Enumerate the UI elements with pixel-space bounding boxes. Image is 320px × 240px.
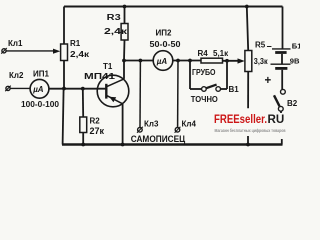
meter ИП2 — [153, 51, 173, 71]
svg-text:+: + — [265, 75, 272, 87]
svg-text:R5: R5 — [255, 41, 266, 50]
svg-text:Кл1: Кл1 — [8, 39, 23, 48]
svg-text:Кл4: Кл4 — [182, 119, 197, 128]
svg-text:ТОЧНО: ТОЧНО — [191, 95, 218, 104]
svg-text:µA: µA — [156, 57, 168, 66]
node junction R2/bottom rail — [81, 143, 85, 147]
svg-text:50-0-50: 50-0-50 — [150, 40, 182, 49]
background paper — [0, 0, 300, 150]
svg-text:Кл2: Кл2 — [9, 71, 24, 80]
svg-text:5,1к: 5,1к — [213, 49, 229, 58]
svg-text:100-0-100: 100-0-100 — [21, 100, 60, 109]
svg-text:R3: R3 — [107, 13, 122, 22]
battery Б1 (two cells) — [271, 49, 291, 89]
wire collector up to node — [123, 61, 125, 79]
node junction Кл4 tap — [176, 59, 180, 63]
node junction collector/R3/ИП2 wire — [122, 59, 126, 63]
node junction R5/bottom rail — [246, 143, 250, 147]
svg-text:ИП1: ИП1 — [33, 69, 50, 78]
terminal Кл2 — [5, 86, 11, 92]
svg-text:27к: 27к — [90, 126, 105, 136]
node junction R5/top rail — [245, 5, 249, 9]
resistor R5 (potentiometer) — [245, 7, 252, 145]
transistor Q1 Т1 МП41 — [97, 75, 129, 107]
svg-text:Магазин бесплатных цифровых то: Магазин бесплатных цифровых товаров — [215, 128, 286, 133]
svg-text:−: − — [267, 41, 272, 51]
node junction emitter/bottom rail — [121, 143, 125, 147]
svg-text:Т1: Т1 — [103, 62, 113, 71]
svg-text:µA: µA — [32, 85, 44, 94]
svg-text:R1: R1 — [70, 39, 81, 48]
wire ИП2 to R4 — [173, 60, 201, 62]
wire base: ИП1 to T1 base — [49, 88, 106, 90]
terminal Кл1 — [1, 48, 7, 54]
wire bottom rail — [62, 143, 283, 145]
node junction B1 right tap — [225, 59, 229, 63]
node junction R1/base wire — [62, 87, 66, 91]
wire left branch down to bottom rail — [63, 89, 64, 145]
switch B1 (ГРУБО/ТОЧНО) — [190, 61, 227, 92]
svg-text:R2: R2 — [90, 117, 101, 126]
node junction R3/top rail — [123, 5, 127, 9]
svg-text:9В: 9В — [290, 56, 300, 65]
svg-text:В2: В2 — [287, 99, 298, 108]
resistor R4 — [201, 58, 223, 63]
wire Кл1 to R1 wiper arrow — [6, 49, 60, 54]
resistor R2 — [80, 89, 87, 145]
svg-text:Б1: Б1 — [292, 42, 300, 51]
svg-text:RU: RU — [268, 113, 285, 126]
svg-text:3,3к: 3,3к — [254, 57, 268, 66]
node junction R2/base wire — [81, 87, 85, 91]
svg-text:ИП2: ИП2 — [156, 28, 173, 37]
resistor R1 — [61, 7, 68, 89]
wire Кл2 to meter ИП1 — [10, 87, 30, 89]
terminal Кл4 — [175, 61, 181, 133]
svg-text:САМОПИСЕЦ: САМОПИСЕЦ — [131, 134, 186, 144]
svg-text:2,4к: 2,4к — [70, 49, 90, 59]
svg-text:R4: R4 — [198, 49, 209, 58]
wire node to ИП2 — [124, 60, 153, 62]
node junction Кл3 tap — [139, 59, 143, 63]
meter ИП1 — [30, 79, 49, 98]
svg-text:Кл3: Кл3 — [144, 119, 159, 128]
svg-text:В1: В1 — [229, 85, 240, 94]
switch B2 — [274, 89, 285, 144]
wire emitter down to bottom rail — [122, 104, 124, 145]
svg-text:2,4к: 2,4к — [104, 26, 128, 36]
wire battery drop from top rail — [282, 7, 284, 49]
terminal Кл3 — [137, 61, 143, 133]
svg-text:FREEseller.: FREEseller. — [214, 113, 267, 126]
node junction B1 left tap — [188, 59, 192, 63]
wire top rail — [64, 6, 283, 8]
resistor R3 — [121, 7, 128, 61]
svg-text:МП41: МП41 — [84, 71, 115, 81]
svg-text:ГРУБО: ГРУБО — [192, 68, 216, 77]
wire R4 to R5 wiper arrow — [223, 58, 245, 63]
